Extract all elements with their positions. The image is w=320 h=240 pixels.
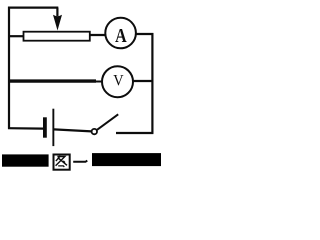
svg-text:A: A: [115, 25, 127, 47]
wire: switch to bottom right corner: [116, 132, 153, 134]
voltmeter V: [102, 66, 133, 97]
wire: wiper drop to rheostat: [56, 8, 58, 16]
svg-text:V: V: [113, 71, 123, 89]
wire: top horizontal: [8, 6, 58, 8]
caption: right black bar: [92, 153, 161, 166]
wire: ammeter to right rail: [136, 33, 154, 35]
wire: voltmeter branch left thin lead: [94, 81, 103, 83]
resistor R (rheostat body): [24, 32, 90, 41]
battery negative plate (short thick): [43, 117, 47, 137]
wire: right rail: [151, 33, 153, 134]
switch lever (open): [97, 114, 119, 130]
caption: left black bar: [2, 154, 49, 166]
wire: left rail to resistor: [9, 35, 24, 37]
wire: bottom left (battery lead): [8, 127, 44, 130]
switch pivot: [92, 129, 97, 134]
wire: left rail: [8, 7, 10, 129]
battery positive plate (long thin): [52, 109, 54, 146]
caption: character tu (figure) box: [54, 155, 70, 170]
arrowhead of rheostat wiper: [53, 15, 62, 31]
caption: character yi (one): [73, 161, 87, 162]
wire: battery to switch: [54, 129, 92, 131]
wire: voltmeter branch left (thick): [9, 79, 96, 82]
wire: voltmeter to right rail: [133, 80, 152, 82]
wire: resistor to ammeter: [90, 34, 106, 36]
ammeter A: [105, 18, 136, 49]
